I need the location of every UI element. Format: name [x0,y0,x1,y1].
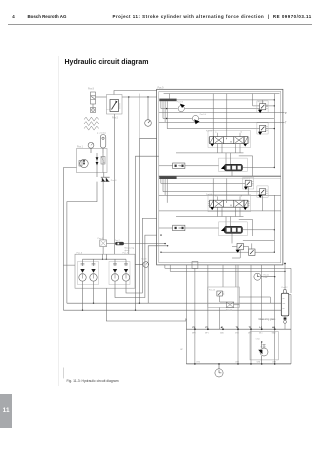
check valve column in unit [96,153,98,173]
T line from unit [63,168,76,311]
wire throttle2 out [243,229,274,231]
gauge M2 [88,142,94,153]
manifold top bus [83,254,127,259]
cartridge valve V2 [90,259,97,288]
svg-text:Pos.12: Pos.12 [282,287,288,289]
svg-text:Pos.15: Pos.15 [261,347,267,349]
flow meter FM2 [173,225,185,231]
wire riser faint top [138,94,140,139]
wire gauge drop [147,97,149,120]
svg-text:ML1: ML1 [259,332,263,334]
svg-text:Pos.5: Pos.5 [112,117,119,119]
subplate pair B [109,262,130,285]
throttle plate station2 [219,222,248,236]
wire flow meter feed [159,165,173,167]
dv1 pilot ticks [218,133,241,137]
right bus station1 [273,94,275,168]
directional valve DV2 [208,200,249,207]
manifold block [75,254,135,288]
wire block to rail P1 [207,265,209,329]
wire rv3 drain [247,187,249,196]
relief valve RV4 [260,189,268,195]
svg-text:Pos.9.6: Pos.9.6 [206,194,212,196]
power unit box [77,149,108,173]
svg-text:t min: t min [264,276,268,279]
wire cv2 line [163,118,274,120]
accumulator A1 [100,135,106,154]
subplate station1 [208,131,251,148]
subplate RV2 [257,123,268,134]
wire B bus station1 [167,128,274,130]
wire P line station1 [159,112,285,114]
measuring port labels [192,331,276,334]
port labels [193,326,276,329]
svg-text:Measuring: Measuring [125,246,136,249]
relief valve RV3 [245,180,253,186]
dv2 pilot ticks [218,196,241,200]
rail bottom [186,363,291,365]
relief valve RV1 [260,104,268,110]
wire relief to gauge node [122,96,157,98]
dv2 port stubs [176,207,253,236]
filter column in unit [102,153,104,173]
svg-text:T: T [285,122,287,125]
wire rv3 line [161,183,245,185]
rail down lines [195,329,275,364]
wire unit to filter square [102,182,104,240]
bottom port labels [197,362,276,364]
timer gauge M3 [254,273,275,280]
wire riser to station1 A [139,139,156,304]
wire valveA feed [253,94,275,106]
svg-text:b: b [241,195,242,197]
directional valve DV1 [208,137,249,144]
wire throttle2 drain [231,233,233,243]
wire block to rail A2 [274,265,276,329]
filter F2 [100,240,107,247]
valve block frame [157,89,283,265]
wire throttle drain [231,171,233,176]
wire dv2 feeds [213,178,227,200]
wire relief to top line [114,91,157,95]
wires below unit [97,173,104,178]
dv1 port stubs [176,144,253,177]
mini relief valve RV7 [217,291,224,296]
svg-text:0T1: 0T1 [197,362,200,364]
svg-text:b: b [241,132,242,134]
station2 left drops [161,179,167,203]
bottom port fitting [192,262,198,269]
station1 left drops [161,94,169,129]
subplate RV4 [257,186,268,197]
margin rule [57,56,59,386]
wire cv1 line [161,108,260,110]
svg-text:a: a [215,132,217,134]
terminal bar station1 [159,99,176,102]
pump P1 [79,159,88,167]
rail top [186,328,291,330]
bottom rail dots [194,363,275,365]
relief valve U1 [107,100,121,112]
wire filter to relief valve [96,96,107,98]
junction dots manifold wires [93,303,94,304]
rail left drop [185,329,187,364]
svg-text:Pos.8: Pos.8 [88,89,95,91]
svg-text:MA1: MA1 [220,331,224,334]
left stub lines [62,368,64,379]
wire filter square down [102,247,104,255]
wire flow meter2 feed [159,227,173,229]
svg-text:0T3: 0T3 [257,362,260,364]
timer clock M4 [215,364,223,377]
svg-text:Pos.9.5: Pos.9.5 [206,130,212,132]
shutoff square [226,302,233,308]
outlet fitting [91,108,96,113]
subplate RV1 [257,101,268,112]
check valve CV1 [178,106,184,112]
svg-text:Pos.9.4: Pos.9.4 [200,114,206,116]
wire manifold to station2 A [126,218,157,293]
cartridge valve V3 [111,259,118,288]
sampling valve [115,242,124,245]
throttle plate station1 [219,158,248,171]
wire rv4 drain [262,195,264,211]
wire manifold to rail B [106,288,186,329]
wire throttle out [243,167,275,169]
wire relief drain down [114,114,116,254]
wire manifold to station2 B [115,235,157,297]
svg-text:Pos.14: Pos.14 [226,309,232,311]
wire manifold to station1 A [67,288,281,303]
relief valve RV2 [260,125,268,131]
dv1 pilot cones [210,144,214,147]
wire block to rail T1 [250,265,252,329]
subplate station2 [208,195,251,212]
cartridge valve V4 [122,259,129,288]
wire riser extra st2 [148,246,167,303]
svg-text:A1: A1 [221,326,225,329]
mg circuit box [208,287,240,308]
flow meter FM1 [173,163,185,169]
wire block drain bus 1 [165,265,291,293]
wire dv1 feeds [213,94,227,137]
rail port dots [194,328,276,330]
check valve Q1 below unit [102,177,105,181]
svg-text:A2: A2 [272,326,276,329]
svg-text:Pos.3: Pos.3 [111,180,117,182]
throttle check block TC2 [221,226,243,233]
wire block to rail B [185,265,187,329]
wire rv4 line [163,191,260,193]
svg-text:a: a [215,195,217,197]
wire flow meter out [185,165,219,167]
svg-text:Pos.9.3: Pos.9.3 [177,102,183,104]
svg-text:Pos.9.1: Pos.9.1 [258,101,264,103]
svg-text:MP1: MP1 [205,332,209,334]
dv2 pilot cones [210,207,214,210]
wire tube right drop [289,295,291,364]
svg-text:t min: t min [256,338,260,341]
subplate RV3 [243,178,254,189]
wire mini valve down [219,296,221,302]
node at gauge [147,96,148,97]
wire rv6 out to edge [243,240,274,242]
svg-text:Pos.9.2: Pos.9.2 [244,178,250,180]
wire block drain bus 2 [170,265,285,272]
wire T drain corner [67,182,97,304]
throttle check block TC1 [221,164,243,171]
wire block to rail L1 [261,265,263,329]
svg-text:Pos.13: Pos.13 [209,289,215,291]
wire block to mg box [223,265,236,287]
relief valve RV6 [249,249,255,255]
measuring glass tube [281,289,289,316]
svg-text:p = 10 bar: p = 10 bar [97,133,106,135]
filter F1 [91,92,96,104]
wire upper bus station1 [177,99,275,101]
wire top internal [164,93,280,95]
check valve CV2 [192,115,198,121]
svg-text:Pos.4: Pos.4 [98,238,104,240]
wire riser to station1 B [136,156,159,310]
svg-text:Pos.2: Pos.2 [115,240,120,242]
wire tube top up [284,263,286,289]
pressure gauge M1 [145,120,152,127]
wire rv5 rv6 links [161,243,274,258]
station separator [159,175,281,177]
wire manifold to station1 B [63,288,281,310]
subplate pair A [78,262,99,285]
wire mg box links [220,297,271,329]
wire T line station2 [159,210,281,212]
svg-text:0P: 0P [180,349,183,351]
svg-text:L1: L1 [260,327,263,329]
wire filter to outlet [92,104,94,108]
wire pump pressure down [128,97,130,254]
cartridge valve V1 [79,259,86,288]
right bus station2 [273,195,275,252]
wire block to rail T2 [237,265,239,329]
throttle valve V5 [260,342,268,364]
relief box lower [250,332,278,360]
gauge M5 [135,262,149,268]
wire T line station1 [159,121,285,123]
wire P line station2 [159,194,281,196]
spring symbol [84,117,99,130]
svg-text:P: P [285,112,287,115]
wire flow meter2 out [185,227,219,229]
relief valve RV5 [237,243,243,249]
tube drain fitting [284,318,287,320]
relief valve U1 outer box [107,95,123,115]
terminal bar station2 [159,176,176,179]
svg-text:Measuring glass: Measuring glass [259,318,277,321]
mg line [107,243,166,245]
